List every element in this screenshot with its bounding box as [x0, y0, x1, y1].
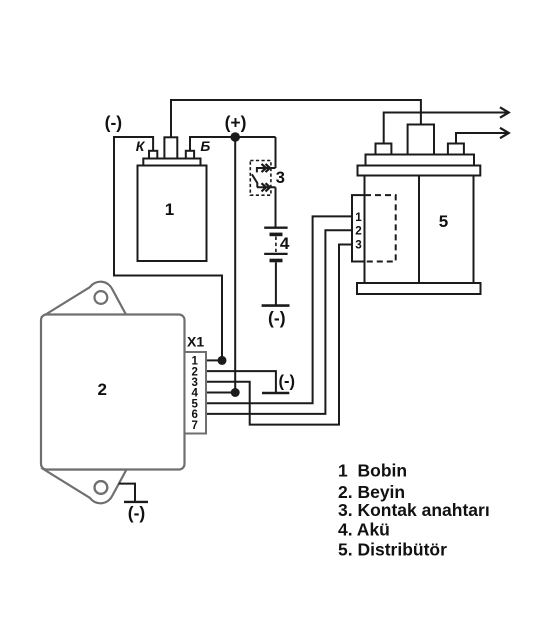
wire (+) node down to X1 pin 4	[234, 137, 236, 393]
switch 3 lever	[252, 174, 257, 187]
node (+) junction dot	[230, 132, 240, 142]
arrowhead lower	[500, 128, 509, 138]
svg-text:7: 7	[191, 420, 197, 432]
distributor 5 cap band	[358, 166, 481, 176]
battery 4 plate short bottom	[270, 259, 283, 263]
battery 4 plate long top	[264, 227, 287, 229]
coil 1 HT tower	[164, 137, 177, 158]
wire distributor pin2 to X1 pin6	[206, 230, 352, 414]
svg-text:(-): (-)	[105, 113, 122, 133]
distributor 5 connector box	[352, 195, 365, 261]
node X1 pin4 junction dot	[231, 388, 240, 397]
connector X1 box	[185, 352, 207, 434]
beyin 2 bottom tab hole	[95, 481, 108, 494]
switch 3 top contact	[257, 168, 276, 172]
distributor 5 HT tower	[408, 125, 434, 155]
wire distributor pin1 to X1 pin5	[206, 216, 352, 403]
beyin 2 bottom mounting tab	[44, 470, 127, 504]
distributor 5 right tower	[448, 144, 464, 155]
svg-text:1: 1	[165, 200, 174, 219]
wire X1 pin2 to chassis ground	[206, 371, 276, 393]
svg-text:2. Beyin: 2. Beyin	[338, 482, 405, 502]
svg-text:1: 1	[355, 211, 362, 224]
wire spark output upper	[384, 113, 507, 144]
svg-text:1: 1	[338, 460, 348, 480]
arrowhead upper	[500, 107, 509, 117]
svg-text:4: 4	[280, 234, 290, 253]
svg-text:4. Akü: 4. Akü	[338, 520, 390, 540]
wire coil K terminal to node A	[114, 137, 222, 360]
wire spark output lower	[456, 133, 507, 144]
wire distributor pin3 to X1 pin3	[206, 245, 352, 425]
switch 3 bottom contact chevrons	[262, 183, 271, 191]
coil 1 cap band	[143, 159, 200, 166]
battery 4 plate short top	[270, 233, 283, 237]
ground bar battery (-)	[262, 304, 290, 307]
distributor 5 base band	[357, 283, 481, 294]
svg-text:3: 3	[276, 169, 285, 187]
beyin 2 top tab hole	[95, 291, 108, 304]
svg-text:2: 2	[97, 380, 106, 399]
svg-text:(-): (-)	[268, 308, 285, 328]
wire HT lead from coil to distributor	[171, 100, 421, 138]
distributor 5 shoulder	[366, 155, 475, 166]
svg-text:3: 3	[355, 239, 362, 252]
switch 3 top contact chevrons	[262, 164, 271, 172]
battery 4 dashed cell link	[275, 237, 277, 253]
svg-text:(-): (-)	[279, 373, 295, 391]
distributor 5 left tower	[376, 144, 392, 155]
battery 4 plate long bottom	[264, 253, 287, 255]
svg-text:Б: Б	[200, 138, 210, 154]
wire switch to battery	[275, 187, 277, 227]
distributor 5 body	[365, 176, 474, 284]
beyin 2 top mounting tab	[44, 282, 127, 316]
wire X1 pin4 stub	[206, 392, 235, 394]
wire beyin tab to ground	[119, 484, 135, 502]
svg-text:5: 5	[439, 212, 448, 231]
wire (+) rail down to switch	[275, 137, 277, 168]
beyin 2 body	[41, 315, 185, 470]
coil 1 terminal K step	[149, 151, 157, 159]
coil 1 terminal B step	[186, 151, 194, 159]
distributor 5 dashed module	[365, 195, 396, 261]
svg-text:2: 2	[355, 225, 362, 238]
svg-text:(+): (+)	[225, 113, 247, 133]
node X1 pin1 junction dot	[218, 356, 227, 365]
svg-text:X1: X1	[187, 333, 204, 349]
ground bar X1 pin2 (-)	[262, 392, 289, 394]
wire X1 pin1 stub	[206, 359, 222, 361]
coil 1 body	[138, 166, 207, 262]
svg-text:(-): (-)	[128, 503, 145, 523]
svg-text:3. Kontak anahtarı: 3. Kontak anahtarı	[338, 500, 490, 520]
wire battery to ground	[275, 262, 277, 304]
distributor 5 body divider	[418, 176, 420, 284]
ground bar beyin (-)	[124, 501, 148, 503]
svg-text:К: К	[136, 138, 146, 154]
beyin 2 bottom tab hole redraw	[95, 481, 108, 494]
svg-text:5. Distribütör: 5. Distribütör	[338, 540, 447, 560]
switch 3 bottom contact	[257, 186, 276, 188]
svg-text:Bobin: Bobin	[358, 460, 408, 480]
wire coil B terminal to (+) node	[190, 137, 276, 151]
switch 3 dashed enclosure	[250, 161, 271, 196]
